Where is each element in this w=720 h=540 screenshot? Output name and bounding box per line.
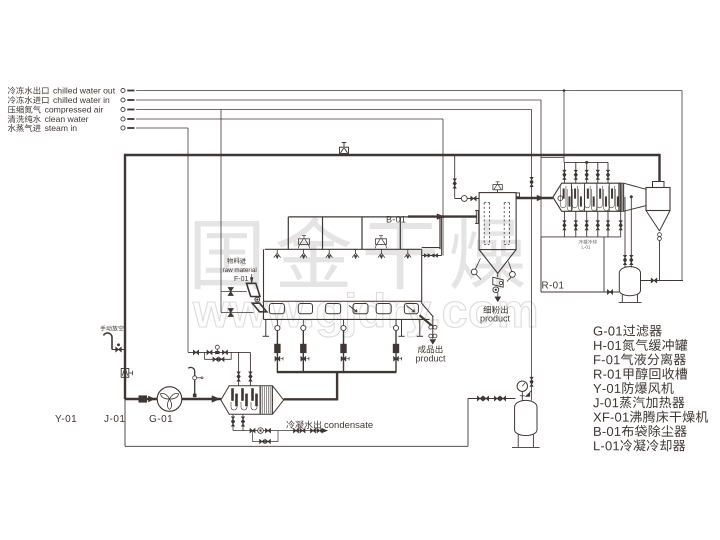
svg-text:condensate: condensate: [324, 420, 373, 431]
svg-text:F-01: F-01: [234, 276, 249, 283]
svg-text:R-01: R-01: [542, 281, 565, 292]
svg-text:Y-01: Y-01: [55, 414, 77, 425]
svg-text:G-01: G-01: [149, 414, 173, 425]
svg-text:L-01: L-01: [582, 245, 591, 250]
svg-text:chilled water out: chilled water out: [53, 86, 116, 96]
svg-text:J-01: J-01: [104, 414, 125, 425]
svg-text:product: product: [480, 314, 511, 324]
svg-text:steam in: steam in: [45, 123, 78, 133]
svg-text:B-01: B-01: [386, 215, 406, 225]
svg-text:compressed air: compressed air: [45, 105, 104, 115]
svg-text:product: product: [416, 354, 447, 364]
svg-text:raw material: raw material: [223, 267, 257, 274]
svg-text:chilled water in: chilled water in: [53, 95, 110, 105]
